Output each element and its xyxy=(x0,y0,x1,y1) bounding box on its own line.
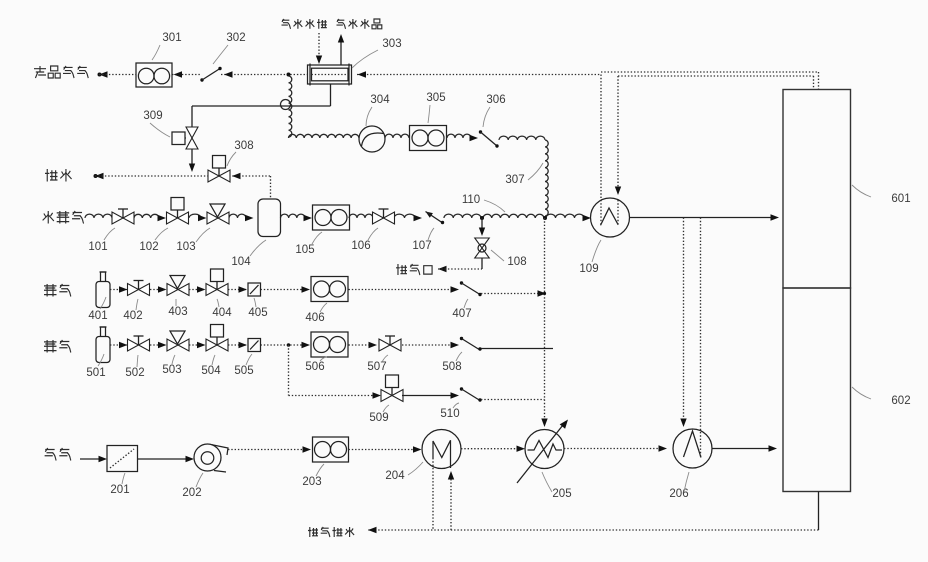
wire: steam squiggle main line y218 xyxy=(85,214,591,221)
wire: 206 outlet to 602 xyxy=(712,445,777,451)
flow meter 105 xyxy=(313,205,350,230)
label 尾气排放 xyxy=(308,527,354,537)
valve 502 xyxy=(128,336,150,351)
svg-text:109: 109 xyxy=(579,263,598,275)
valve 106 xyxy=(373,209,395,224)
air filter 201 xyxy=(107,446,138,472)
svg-text:201: 201 xyxy=(110,484,129,496)
label 302 xyxy=(213,32,246,64)
wire: product hydrogen header y74 xyxy=(98,71,602,77)
label 冷却水进 xyxy=(281,19,326,29)
switch 107 xyxy=(426,212,445,225)
flow meter 203 xyxy=(313,437,349,462)
svg-text:509: 509 xyxy=(369,412,388,424)
svg-text:306: 306 xyxy=(486,94,505,106)
compressor 204 xyxy=(422,430,461,469)
svg-text:401: 401 xyxy=(88,310,107,322)
svg-text:502: 502 xyxy=(125,367,144,379)
wire: vent line xyxy=(438,266,482,272)
svg-text:302: 302 xyxy=(226,32,245,44)
label 309 xyxy=(143,110,170,137)
svg-text:602: 602 xyxy=(891,395,910,407)
needle valve 108 xyxy=(475,216,490,269)
gas cylinder 401 xyxy=(96,272,110,308)
heat exchanger 206 xyxy=(673,429,712,468)
svg-text:501: 501 xyxy=(86,367,105,379)
svg-text:304: 304 xyxy=(370,94,390,106)
switch 302 xyxy=(200,67,221,82)
label 空气 xyxy=(45,448,71,461)
wire 202-203 xyxy=(228,446,311,452)
control valve 308 xyxy=(208,156,230,183)
label 氮气 xyxy=(44,340,71,353)
wire: steam manifold y289.5 xyxy=(110,286,459,292)
wire: cooling water outlet xyxy=(338,34,344,65)
control valve 504 xyxy=(206,325,228,352)
label 303 xyxy=(352,38,402,68)
svg-text:406: 406 xyxy=(305,312,324,324)
label 110 xyxy=(462,194,505,212)
adsorber vessel 601 xyxy=(783,90,851,289)
wire: exhaust bottom line xyxy=(368,458,819,533)
svg-text:104: 104 xyxy=(231,256,251,268)
svg-text:504: 504 xyxy=(201,365,221,377)
wire: cooling water inlet xyxy=(316,33,322,64)
check valve 505 xyxy=(248,339,261,352)
svg-text:107: 107 xyxy=(412,240,431,252)
svg-text:106: 106 xyxy=(351,240,370,252)
vessel 104 xyxy=(258,199,281,237)
label 水蒸气 xyxy=(43,211,84,224)
wire: top return lines xyxy=(601,72,819,224)
check valve 405 xyxy=(248,283,261,296)
svg-text:204: 204 xyxy=(385,470,405,482)
svg-text:505: 505 xyxy=(234,365,253,377)
svg-text:110: 110 xyxy=(462,194,480,206)
heat exchanger 303 xyxy=(308,64,352,86)
coil riser at x288 xyxy=(281,73,292,138)
wire: downcomers to 206 xyxy=(680,218,700,458)
svg-text:301: 301 xyxy=(162,32,181,44)
adsorber vessel 602 xyxy=(783,288,851,492)
svg-text:510: 510 xyxy=(440,408,459,420)
svg-text:206: 206 xyxy=(669,488,688,500)
label 蒸气 xyxy=(44,284,71,297)
svg-text:508: 508 xyxy=(442,361,461,373)
flow meter 506 xyxy=(311,332,348,357)
control valve 509 xyxy=(381,375,403,402)
label 308 xyxy=(227,140,254,166)
wire 203-204 xyxy=(349,446,422,452)
svg-text:404: 404 xyxy=(212,307,232,319)
wire: squiggle from 303 loop to pump 304 xyxy=(289,134,359,138)
control valve 102 xyxy=(167,198,189,225)
svg-text:601: 601 xyxy=(891,193,910,205)
svg-text:402: 402 xyxy=(123,310,142,322)
blower 202 xyxy=(194,444,228,472)
wire: air inlet xyxy=(80,456,107,462)
switch 510 xyxy=(402,387,545,401)
svg-text:103: 103 xyxy=(176,241,195,253)
svg-text:407: 407 xyxy=(452,308,471,320)
wire: nitrogen manifold y345 xyxy=(110,342,459,348)
control valve 404 xyxy=(206,269,228,296)
label 冷却水出 xyxy=(336,19,381,29)
switch 407 xyxy=(460,281,546,296)
valve 103 xyxy=(207,204,229,224)
svg-text:105: 105 xyxy=(295,244,314,256)
label 放空口 xyxy=(396,264,432,275)
wire 201-202 xyxy=(138,456,195,462)
gas cylinder 501 xyxy=(96,327,110,363)
coil drop 307 xyxy=(543,140,548,220)
svg-text:303: 303 xyxy=(382,38,401,50)
valve 309 xyxy=(172,127,198,149)
valve 402 xyxy=(128,281,150,296)
wire 205-206 xyxy=(564,445,667,451)
svg-text:101: 101 xyxy=(88,241,107,253)
flow meter 406 xyxy=(311,277,348,302)
svg-text:507: 507 xyxy=(367,361,386,373)
svg-text:403: 403 xyxy=(168,306,187,318)
valve 101 xyxy=(112,209,134,224)
label 排水 xyxy=(45,169,72,182)
svg-text:307: 307 xyxy=(505,174,524,186)
svg-text:308: 308 xyxy=(234,140,253,152)
wire: 303 bottom loop to drain valve 309 xyxy=(189,84,331,172)
svg-text:108: 108 xyxy=(507,256,526,268)
wire: drain line y176 xyxy=(94,173,271,199)
svg-text:503: 503 xyxy=(162,364,181,376)
relief valve 503 xyxy=(167,331,189,351)
svg-text:203: 203 xyxy=(302,476,321,488)
label 301 xyxy=(152,32,182,60)
wire: header x544.5 down to heater 205 xyxy=(541,218,547,427)
label 产品氢气 xyxy=(34,66,88,78)
flow meter 305 xyxy=(385,126,447,151)
svg-text:102: 102 xyxy=(139,241,158,253)
pump 304 xyxy=(359,126,385,152)
valve 507 xyxy=(379,336,401,351)
wire: branch x288.5 down to purge row xyxy=(287,343,381,399)
heat exchanger 109 xyxy=(591,198,630,237)
trim heater 205 xyxy=(517,420,568,484)
flow meter 301 xyxy=(136,63,172,87)
wire: 109 outlet to adsorber 601 xyxy=(630,214,780,220)
switch 306 xyxy=(447,130,545,147)
wire 204-205 xyxy=(461,446,525,452)
switch 508 xyxy=(460,337,553,351)
svg-text:205: 205 xyxy=(552,488,571,500)
relief valve 403 xyxy=(167,276,189,296)
svg-text:405: 405 xyxy=(248,307,267,319)
svg-text:309: 309 xyxy=(143,110,162,122)
svg-text:506: 506 xyxy=(305,361,324,373)
svg-text:202: 202 xyxy=(182,487,201,499)
svg-text:305: 305 xyxy=(426,92,445,104)
